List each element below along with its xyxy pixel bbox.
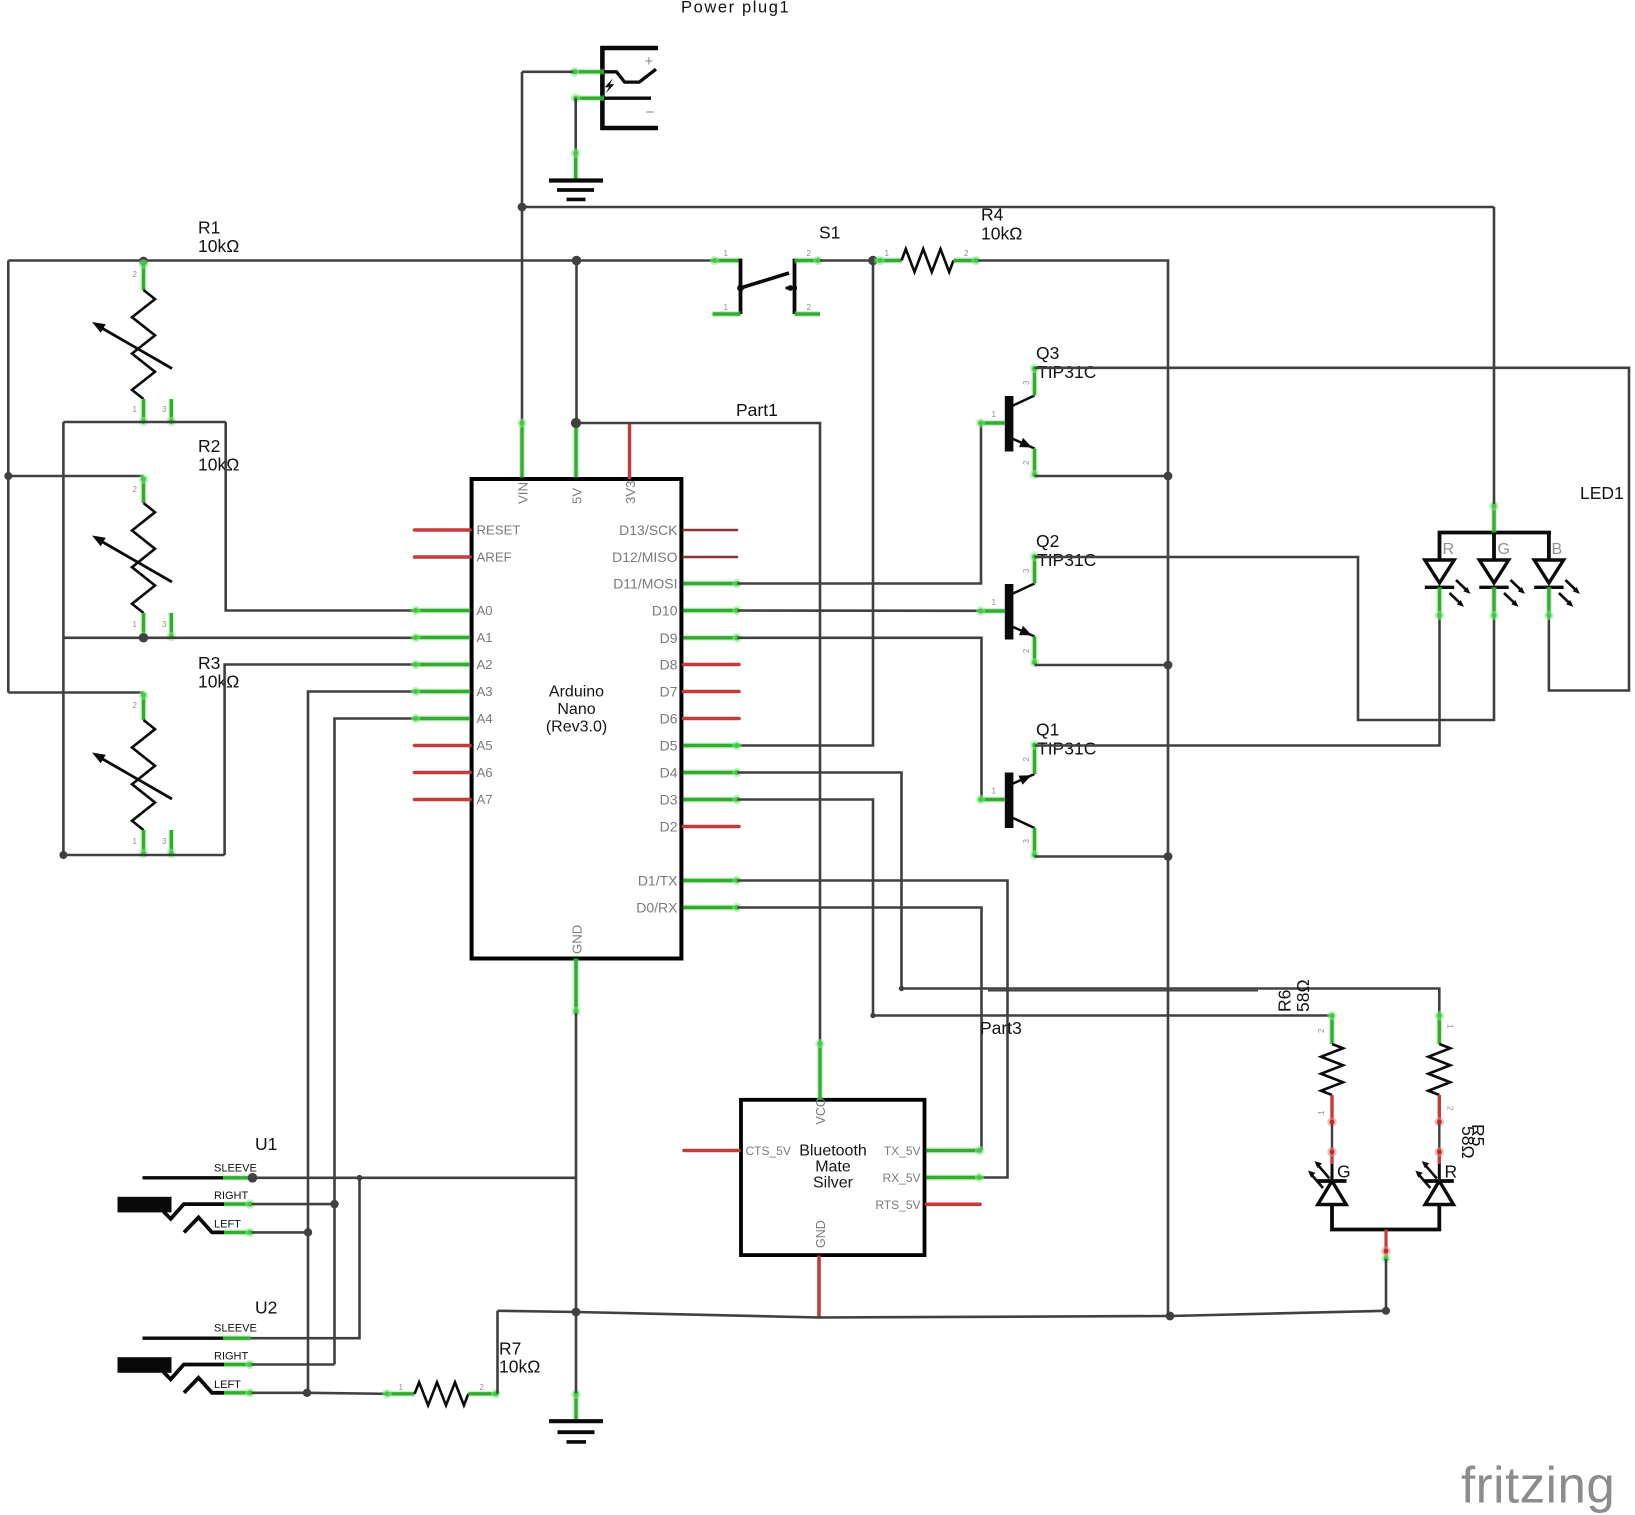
svg-text:3: 3 (162, 620, 167, 629)
LED R (bottom indicator) (1415, 1124, 1457, 1205)
junction D4 corner (899, 986, 904, 991)
ground symbol (power plug) (549, 148, 603, 199)
svg-text:D11/MOSI: D11/MOSI (613, 576, 677, 592)
wire R1 to A0 drop (226, 422, 416, 611)
svg-text:S1: S1 (819, 223, 840, 243)
svg-text:10kΩ: 10kΩ (198, 236, 239, 256)
pin CTS_5V red stub (684, 1149, 739, 1153)
wire Q2 collector to LED G (1035, 557, 1495, 720)
wire GND stub to ground symbol (575, 1312, 578, 1393)
svg-text:R1: R1 (198, 218, 220, 238)
svg-text:2: 2 (480, 1383, 485, 1392)
wire Q1 collector to column (1035, 855, 1169, 858)
wire Q2 emitter to column (1035, 664, 1169, 667)
svg-text:58Ω: 58Ω (1293, 979, 1313, 1012)
svg-text:10kΩ: 10kΩ (981, 224, 1022, 244)
pin VIN (517, 418, 527, 477)
svg-text:−: − (646, 104, 655, 121)
wire vertical plug to VIN rail (521, 72, 524, 422)
wire Q3 emitter to column (1035, 475, 1169, 478)
svg-text:fritzing: fritzing (1461, 1457, 1615, 1514)
junction 5V node (571, 418, 581, 428)
svg-text:LEFT: LEFT (214, 1218, 241, 1230)
wire U1 right wire (252, 1203, 335, 1206)
svg-text:3: 3 (1022, 568, 1031, 573)
svg-text:AREF: AREF (477, 550, 512, 565)
svg-text:58Ω: 58Ω (1458, 1126, 1478, 1159)
wire plug tip to vertical (522, 71, 573, 74)
IC Part3 Bluetooth Mate Silver (741, 1098, 925, 1255)
junction sleeve drop tee (357, 1175, 363, 1181)
svg-text:1: 1 (133, 405, 138, 414)
svg-text:R: R (1445, 1162, 1458, 1182)
switch S1 (710, 249, 823, 314)
pins D13/D12 maroon stubs (684, 529, 738, 532)
svg-text:R6: R6 (1275, 990, 1295, 1012)
svg-text:1: 1 (992, 598, 997, 607)
junction U1 sleeve node (248, 1173, 258, 1183)
wire left bus down (7, 261, 10, 693)
svg-text:CTS_5V: CTS_5V (746, 1144, 791, 1158)
junction 5V rail tee (572, 256, 582, 266)
wire LED1 anode from power (1493, 207, 1496, 504)
junction Q2 emitter node (1164, 661, 1173, 670)
wire R1 wiper row (63, 421, 225, 424)
svg-text:1: 1 (724, 249, 729, 258)
resistor R4 10kΩ (874, 249, 981, 272)
svg-text:TIP31C: TIP31C (1037, 550, 1096, 570)
wire U2 left wire (252, 1392, 308, 1395)
svg-text:VIN: VIN (516, 482, 531, 504)
svg-text:2: 2 (133, 701, 138, 710)
wire R3 row (63, 854, 224, 857)
wire S1 to R4 (820, 259, 873, 262)
svg-text:3: 3 (1022, 380, 1031, 385)
wire D0/RX to BT TX (738, 908, 982, 1151)
junction U2 left node (303, 1389, 311, 1397)
svg-text:3V3: 3V3 (623, 481, 638, 504)
svg-text:Mate: Mate (815, 1159, 851, 1176)
svg-text:RIGHT: RIGHT (214, 1190, 249, 1202)
svg-text:GND: GND (570, 925, 585, 954)
svg-text:1: 1 (399, 1383, 404, 1392)
wire R2 pin2 feed (8, 475, 143, 478)
svg-text:D0/RX: D0/RX (636, 900, 678, 916)
svg-text:U1: U1 (255, 1134, 277, 1154)
wire plug sleeve down to ground (574, 98, 577, 152)
junction R1 pin2 tee (139, 257, 148, 266)
potentiometer R2 10kΩ (92, 474, 176, 641)
svg-text:TX_5V: TX_5V (884, 1144, 921, 1158)
resistor R5 58Ω (1428, 1011, 1454, 1127)
svg-text:RX_5V: RX_5V (882, 1171, 920, 1185)
pin GND red leg (817, 1256, 821, 1318)
svg-text:G: G (1337, 1162, 1351, 1182)
junction rail-column node (1166, 1312, 1175, 1321)
pin RTS_5V red stub (927, 1203, 981, 1207)
LED G (bottom indicator) (1308, 1124, 1351, 1205)
potentiometer R1 10kΩ (92, 259, 176, 426)
svg-text:Q3: Q3 (1036, 343, 1059, 363)
svg-text:G: G (1498, 541, 1510, 558)
junction R2 pin1 junction (139, 633, 148, 642)
svg-text:SLEEVE: SLEEVE (214, 1323, 257, 1335)
svg-text:2: 2 (1022, 648, 1031, 653)
svg-text:3: 3 (1022, 839, 1031, 844)
svg-text:D5: D5 (660, 738, 678, 754)
svg-text:D6: D6 (660, 711, 678, 727)
pin 5V (573, 423, 579, 478)
transistor Q2 TIP31C (976, 552, 1040, 668)
svg-text:2: 2 (1445, 1106, 1454, 1111)
svg-text:LED1: LED1 (1580, 483, 1624, 503)
wire common LED node down (1385, 1259, 1388, 1311)
svg-text:B: B (1552, 541, 1563, 558)
svg-text:1: 1 (133, 837, 138, 846)
svg-text:A2: A2 (477, 657, 493, 672)
svg-text:TIP31C: TIP31C (1037, 739, 1096, 759)
svg-text:2: 2 (1022, 460, 1031, 465)
svg-text:A0: A0 (477, 603, 493, 618)
svg-text:Nano: Nano (557, 701, 595, 718)
svg-text:2: 2 (1317, 1028, 1326, 1033)
svg-text:LEFT: LEFT (214, 1379, 241, 1391)
svg-text:3: 3 (162, 405, 167, 414)
wire U1 sleeve to GND column (253, 1177, 576, 1180)
power plug J1 (Power plug1) (570, 48, 658, 128)
svg-text:D8: D8 (660, 657, 678, 673)
svg-text:D2: D2 (660, 819, 678, 835)
junction power wire junction (518, 203, 527, 212)
svg-text:3: 3 (162, 837, 167, 846)
svg-text:D9: D9 (660, 630, 678, 646)
wire U2 right wire (252, 1363, 335, 1366)
junction S1-R4 node (868, 256, 878, 266)
wire R7 riser (496, 1311, 499, 1394)
pin GND (571, 959, 581, 1017)
wire R3 to A2 riser (225, 665, 416, 856)
wire left vertical R1-R3 (62, 422, 65, 855)
svg-text:R4: R4 (981, 205, 1004, 225)
potentiometer R3 10kΩ (92, 690, 176, 858)
svg-text:RTS_5V: RTS_5V (875, 1198, 920, 1212)
pins RESET/AREF red stubs (415, 528, 471, 532)
svg-text:Q2: Q2 (1036, 531, 1059, 551)
svg-text:2: 2 (1022, 757, 1031, 762)
wire R2 row to A1 (63, 636, 415, 639)
wire D3 to R6 (738, 800, 1333, 1016)
wire power rail to LED1 anode (522, 206, 1494, 209)
wire A4 to jacks right column (335, 719, 416, 1365)
audio jack U2 (118, 1323, 257, 1398)
svg-text:R2: R2 (198, 436, 220, 456)
svg-text:1: 1 (885, 249, 890, 258)
svg-text:Arduino: Arduino (549, 684, 604, 701)
junction rail-GND node (572, 1308, 581, 1317)
junction D3 corner (870, 1013, 875, 1018)
junction Q1 collector node (1164, 852, 1173, 861)
svg-text:1: 1 (1317, 1110, 1326, 1115)
svg-text:D12/MISO: D12/MISO (612, 549, 677, 565)
pin TX_5V (927, 1146, 985, 1156)
svg-text:D13/SCK: D13/SCK (619, 522, 678, 538)
wire LED legs to common node (1332, 1205, 1439, 1230)
junction U1 right node (330, 1200, 338, 1208)
pin 3V3 (red stub) (628, 425, 632, 478)
wire sleeve drop to U2 (251, 1178, 360, 1338)
transistor Q1 TIP31C (976, 740, 1040, 860)
pins D8,D7,D6,D2 red stubs (684, 663, 740, 667)
wire 5V rail y260 (8, 259, 712, 262)
wire D10 to Q2 base (738, 609, 980, 612)
svg-text:(Rev3.0): (Rev3.0) (546, 719, 607, 736)
svg-text:Part1: Part1 (736, 400, 778, 420)
svg-text:D3: D3 (660, 792, 678, 808)
svg-text:+: + (645, 53, 654, 70)
svg-text:1: 1 (1445, 1024, 1454, 1029)
svg-text:1: 1 (992, 410, 997, 419)
svg-text:2: 2 (807, 249, 812, 258)
wire R3 pin2 feed (8, 691, 143, 694)
svg-text:10kΩ: 10kΩ (198, 455, 239, 475)
svg-text:Power plug1: Power plug1 (681, 0, 790, 17)
junction rail end node (1382, 1307, 1390, 1315)
svg-text:10kΩ: 10kΩ (198, 672, 239, 692)
svg-text:RIGHT: RIGHT (214, 1351, 249, 1363)
resistor R7 10kΩ (382, 1382, 501, 1405)
svg-text:RESET: RESET (477, 523, 521, 538)
wire Q3 collector to LED B (1035, 368, 1630, 691)
audio jack U1 (118, 1162, 257, 1237)
RGB LED LED1 (1425, 501, 1580, 620)
svg-text:1: 1 (992, 787, 997, 796)
red leg common node (1384, 1230, 1387, 1257)
svg-text:U2: U2 (255, 1298, 277, 1318)
wire D4 run overlap (988, 990, 1258, 992)
svg-text:D7: D7 (660, 684, 678, 700)
wire 5V rail drop (575, 261, 578, 423)
wire Q1 emitter to LED R (1035, 617, 1440, 746)
svg-text:A1: A1 (477, 630, 493, 645)
svg-text:R7: R7 (499, 1339, 521, 1359)
wire D4 to R5 (738, 773, 1440, 1015)
svg-text:2: 2 (807, 303, 812, 312)
wire D1/TX to BT RX (738, 881, 1008, 1178)
junction U1 left node (304, 1228, 312, 1236)
svg-text:A7: A7 (477, 792, 493, 807)
svg-text:GND: GND (814, 1220, 828, 1248)
wire ground rail (498, 1311, 1387, 1318)
svg-text:D4: D4 (660, 765, 678, 781)
pins D11,D10,D9,D5,D4,D3,D1/TX,D0/RX green stubs (684, 579, 742, 913)
wire Part1 5V to Bluetooth VCC (576, 423, 820, 1042)
svg-text:1: 1 (133, 620, 138, 629)
svg-text:D10: D10 (652, 603, 678, 619)
pin VCC (815, 1039, 825, 1100)
svg-text:10kΩ: 10kΩ (499, 1357, 540, 1377)
ground symbol (bottom) (549, 1389, 603, 1442)
svg-text:Part3: Part3 (980, 1018, 1022, 1038)
IC Part1 Arduino Nano (472, 479, 682, 959)
junction R3 row left (59, 851, 67, 859)
junction Q3 emitter node (1164, 472, 1173, 481)
svg-text:1: 1 (724, 303, 729, 312)
svg-text:Bluetooth: Bluetooth (799, 1143, 867, 1160)
pins A5-A7 red stubs (415, 744, 471, 748)
wire A3 to jacks left column (308, 692, 416, 1394)
wire U2 left to R7 (307, 1393, 386, 1394)
pins A0-A4 green stubs (411, 606, 470, 724)
svg-text:R: R (1443, 541, 1455, 558)
svg-text:A6: A6 (477, 765, 493, 780)
svg-text:TIP31C: TIP31C (1037, 362, 1096, 382)
svg-text:A3: A3 (477, 684, 493, 699)
svg-text:SLEEVE: SLEEVE (214, 1162, 257, 1174)
wire Arduino GND drop (575, 1013, 578, 1312)
svg-text:A5: A5 (477, 738, 493, 753)
wire D11 to Q3 base (738, 424, 982, 584)
wire U1 left wire (252, 1231, 309, 1234)
svg-text:5V: 5V (570, 488, 585, 504)
wire node down to D5 (738, 261, 874, 746)
svg-text:Silver: Silver (813, 1175, 854, 1192)
svg-text:2: 2 (964, 249, 969, 258)
junction R2 top tee (4, 472, 12, 480)
wire D9 to Q1 base (738, 638, 982, 800)
resistor R6 58Ω (1317, 1011, 1343, 1127)
svg-text:D1/TX: D1/TX (638, 873, 678, 889)
svg-text:R3: R3 (198, 653, 220, 673)
transistor Q3 TIP31C (976, 364, 1040, 480)
svg-text:2: 2 (133, 485, 138, 494)
svg-text:VCC: VCC (814, 1098, 828, 1124)
svg-text:2: 2 (133, 270, 138, 279)
svg-text:A4: A4 (477, 711, 493, 726)
wire R4 to right column (978, 261, 1168, 1317)
pin RX_5V (927, 1173, 985, 1183)
svg-text:Q1: Q1 (1036, 720, 1059, 740)
